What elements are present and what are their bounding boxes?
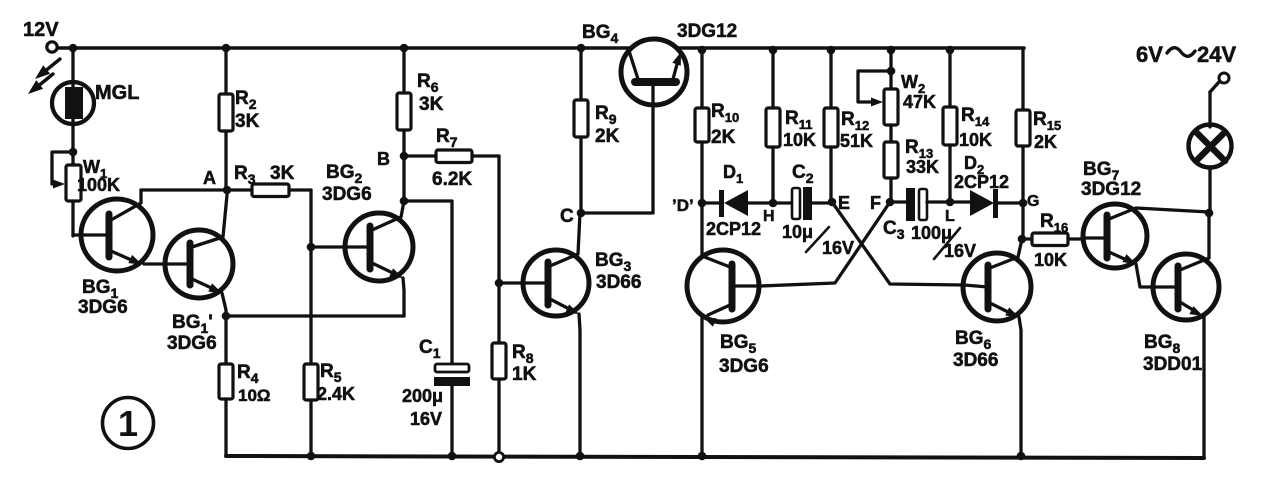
- svg-text:47K: 47K: [903, 92, 936, 112]
- svg-text:200μ: 200μ: [402, 386, 443, 406]
- junction BG2 base: [307, 243, 316, 252]
- wire node G to R16 junction: [1021, 203, 1024, 239]
- resistor R12 51K: [824, 50, 873, 202]
- terminal 6V-24V supply: [1136, 42, 1236, 92]
- svg-text:3DG6: 3DG6: [322, 184, 372, 205]
- svg-text:3DG12: 3DG12: [677, 21, 737, 42]
- resistor R10 2K: [695, 50, 739, 203]
- junction R6-rail: [400, 44, 409, 53]
- junction R10-rail: [698, 46, 707, 55]
- resistor R14 10K: [943, 50, 992, 202]
- wire R7 to BG3 base / R8: [497, 156, 500, 283]
- junction W2-rail: [887, 46, 896, 55]
- junction BG5 emitter-ground: [698, 452, 707, 461]
- junction BG2 collector / C1 branch: [400, 197, 409, 206]
- svg-text:3K: 3K: [419, 94, 444, 115]
- diode D1 2CP12: [702, 162, 773, 239]
- transistor BG1 3DG6: [73, 190, 153, 318]
- terminal 12V input: [23, 19, 59, 52]
- svg-text:16V: 16V: [944, 241, 976, 261]
- resistor R11 10K: [766, 50, 816, 203]
- junction lamp / BG7 / BG8 collectors: [1205, 209, 1214, 218]
- transistor BG8 3DD01: [1143, 254, 1219, 375]
- node L: [945, 198, 955, 225]
- svg-text:1: 1: [118, 403, 138, 444]
- svg-text:1K: 1K: [512, 364, 537, 385]
- figure number 1: [103, 398, 154, 449]
- svg-text:F: F: [870, 193, 881, 213]
- wire BG1 collector to node A: [141, 188, 222, 191]
- junction R11-rail: [769, 46, 778, 55]
- svg-text:2K: 2K: [711, 127, 736, 148]
- junction MGL-rail: [69, 44, 78, 53]
- capacitor C3 100u/16V: [883, 188, 976, 261]
- svg-text:10K: 10K: [1034, 250, 1067, 270]
- svg-text:3DD01: 3DD01: [1143, 354, 1203, 375]
- resistor R5 2.4K: [304, 361, 355, 456]
- capacitor C2 10u/16V: [773, 162, 854, 258]
- wire junction to R8: [497, 283, 500, 343]
- svg-text:2.4K: 2.4K: [317, 384, 355, 404]
- svg-text:3D66: 3D66: [596, 272, 641, 293]
- svg-text:H: H: [763, 208, 775, 225]
- wire BG2 collector to node B: [402, 157, 405, 201]
- resistor R2 3K: [219, 48, 260, 190]
- junction W1 top: [69, 148, 78, 157]
- resistor R4 10ohm: [219, 316, 271, 456]
- resistor R13 33K: [884, 125, 939, 202]
- wire emitter-coupling BG2 to R4 node: [226, 314, 404, 317]
- svg-text:16V: 16V: [410, 409, 442, 429]
- node E: [828, 193, 850, 213]
- svg-text:3DG6: 3DG6: [167, 333, 217, 354]
- svg-text:33K: 33K: [906, 157, 939, 177]
- svg-text:3K: 3K: [235, 111, 260, 132]
- transistor BG6 3D66: [953, 239, 1031, 456]
- transistor BG7 3DG12: [1081, 159, 1209, 287]
- svg-text:C: C: [560, 206, 574, 227]
- svg-text:3D66: 3D66: [953, 350, 998, 371]
- svg-text:100μ: 100μ: [911, 223, 952, 243]
- wire node C to BG4 base: [581, 104, 653, 213]
- terminal R8-ground open junction: [494, 452, 503, 461]
- transistor BG4 3DG12: [582, 21, 737, 105]
- wire D' to BG5 collector: [700, 203, 703, 256]
- transistor BG3 3D66: [499, 213, 641, 456]
- wire junction to R5: [309, 247, 312, 364]
- resistor R9 2K: [574, 48, 620, 213]
- svg-text:100K: 100K: [77, 175, 120, 195]
- node G: [1019, 193, 1040, 210]
- svg-text:A: A: [203, 168, 216, 188]
- svg-text:B: B: [377, 149, 390, 169]
- transistor BG1' 3DG6: [144, 195, 233, 354]
- svg-text:10K: 10K: [959, 130, 992, 150]
- node A: [203, 168, 231, 194]
- junction BG3 emitter-ground: [576, 452, 585, 461]
- svg-text:10K: 10K: [783, 130, 816, 150]
- wire MGL to W1: [71, 122, 74, 152]
- svg-text:3K: 3K: [270, 163, 295, 184]
- svg-text:3DG6: 3DG6: [78, 297, 128, 318]
- svg-text:3DG6: 3DG6: [719, 356, 769, 377]
- junction R5-ground: [307, 452, 316, 461]
- potentiometer W1 100K: [52, 152, 120, 236]
- svg-text:2CP12: 2CP12: [706, 219, 761, 239]
- node H: [763, 199, 777, 225]
- wire C1 top branch: [404, 201, 452, 365]
- node B: [377, 149, 408, 169]
- node C: [560, 206, 585, 227]
- resistor R6 3K: [397, 48, 444, 156]
- svg-text:10Ω: 10Ω: [238, 386, 271, 405]
- junction BG6 collector / R16: [1018, 235, 1027, 244]
- wire BG8 emitter to ground rail: [1202, 317, 1205, 458]
- wire +12V top supply rail: [57, 46, 1024, 50]
- node D': [672, 196, 706, 215]
- junction R12-rail: [827, 46, 836, 55]
- svg-text:MGL: MGL: [95, 82, 139, 104]
- resistor R7 6.2K: [404, 126, 499, 190]
- lamp: [1189, 92, 1232, 213]
- resistor R8 1K: [492, 342, 537, 454]
- svg-text:2K: 2K: [1034, 132, 1057, 152]
- junction C1-ground: [448, 452, 457, 461]
- transistor BG2 3DG6: [311, 162, 413, 316]
- svg-text:12V: 12V: [23, 19, 59, 41]
- svg-text:51K: 51K: [840, 131, 873, 151]
- wire bottom ground rail: [226, 456, 1204, 458]
- svg-text:3DG12: 3DG12: [1081, 179, 1141, 200]
- wire BG5 emitter to ground: [700, 317, 703, 456]
- svg-text:16V: 16V: [822, 238, 854, 258]
- junction BG3 base: [495, 279, 504, 288]
- wire node E to BG6 base: [832, 202, 964, 285]
- svg-text:E: E: [838, 193, 850, 213]
- wire lamp junction to BG8 collector: [1207, 213, 1210, 258]
- photoresistor MGL: [52, 82, 139, 124]
- svg-text:2K: 2K: [595, 126, 620, 147]
- resistor R16 10K: [1022, 211, 1084, 270]
- wire R3 to BG2 base and R5: [309, 190, 312, 247]
- svg-text:L: L: [945, 208, 955, 225]
- svg-text:G: G: [1027, 193, 1039, 210]
- wire node F to BG5 base: [760, 202, 890, 286]
- resistor R3 3K: [227, 163, 311, 197]
- potentiometer W2 47K: [858, 50, 936, 125]
- junction R9-rail: [577, 44, 586, 53]
- transistor BG5 3DG6: [687, 250, 769, 377]
- diode D2 2CP12: [950, 153, 1023, 218]
- junction emitters R4: [222, 312, 231, 321]
- svg-text:10μ: 10μ: [782, 222, 813, 242]
- svg-text:2CP12: 2CP12: [954, 172, 1009, 192]
- junction R2-rail: [222, 44, 231, 53]
- capacitor C1 200u/16V electrolytic: [402, 337, 470, 456]
- wire MGL to rail: [71, 48, 74, 85]
- svg-text:6V: 6V: [1136, 42, 1163, 67]
- node F: [870, 193, 894, 213]
- svg-text:’D’: ’D’: [672, 196, 694, 215]
- resistor R15 2K: [1016, 48, 1061, 203]
- svg-text:24V: 24V: [1197, 42, 1236, 67]
- light arrows into MGL: [28, 59, 60, 94]
- junction R14-rail: [946, 46, 955, 55]
- svg-text:6.2K: 6.2K: [432, 169, 472, 190]
- junction BG6 emitter-ground: [1017, 452, 1026, 461]
